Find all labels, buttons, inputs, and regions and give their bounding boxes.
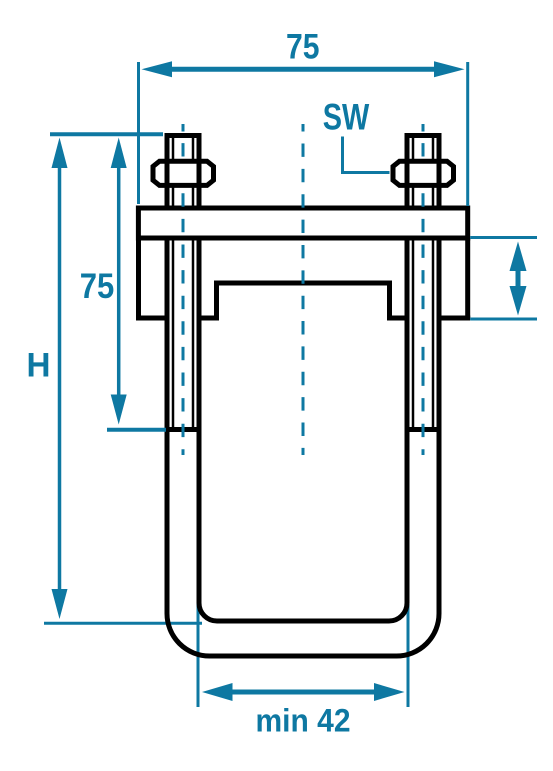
right dimension: upper extension (470, 236, 537, 239)
top dimension 75: left arrowhead (142, 61, 173, 77)
extension line: min42 left (197, 601, 200, 707)
right flange vertical (465, 238, 470, 318)
middle centerline (302, 124, 305, 455)
right shoulder (387, 316, 410, 321)
left stud thread line left (172, 137, 175, 429)
U-bolt inner contour (199, 133, 407, 621)
svg-text:H: H (27, 346, 51, 384)
right stud thread line right (432, 137, 435, 429)
right nut face line left (405, 160, 410, 187)
svg-text:min 42: min 42 (256, 702, 351, 738)
right nut face line right (437, 160, 442, 187)
dimension H: down arrowhead (52, 589, 68, 619)
label SW: leader (343, 137, 390, 173)
left dimension 75: up arrowhead (111, 138, 127, 169)
right bolt centerline lower (422, 193, 425, 455)
left stud thread line right (192, 137, 195, 429)
right dimension: down arrowhead (510, 286, 527, 316)
left step vertical (214, 281, 219, 318)
right dimension: shaft (516, 269, 521, 288)
right stud thread line left (412, 137, 415, 429)
dimension H: up arrowhead (52, 138, 68, 169)
left flange bottom (136, 316, 170, 321)
dimension H: line (58, 166, 62, 591)
right flange bottom (437, 316, 471, 321)
left shoulder (197, 316, 220, 321)
right step vertical (387, 281, 392, 318)
right bolt centerline upper (422, 124, 425, 157)
bottom dimension min 42: right arrowhead (374, 683, 405, 701)
step top edge (214, 281, 392, 286)
clamp plate (138, 208, 467, 238)
extension line under drawing: H bottom reference (44, 622, 202, 625)
right nut (393, 161, 454, 185)
left flange vertical (136, 238, 141, 318)
left dimension 75: line (117, 166, 121, 396)
left bolt centerline lower (182, 193, 185, 455)
right stud top edge (405, 133, 442, 138)
left dimension 75: bottom extension (107, 428, 166, 432)
left dimension 75: top extension (50, 132, 163, 136)
right dimension: lower extension (470, 318, 537, 321)
bottom dimension min 42: line (228, 690, 378, 695)
top dimension 75: right extension (466, 62, 469, 206)
top dimension 75: line (168, 67, 438, 72)
left stud top edge (165, 133, 202, 138)
svg-text:75: 75 (80, 267, 115, 306)
right dimension: up arrowhead (510, 242, 527, 272)
right thread end line (410, 427, 437, 432)
bottom dimension min 42: left arrowhead (202, 683, 233, 701)
left dimension 75: down arrowhead (111, 395, 127, 425)
left bolt centerline upper (182, 124, 185, 157)
U-bolt outer contour (167, 133, 439, 656)
top dimension 75: right arrowhead (434, 61, 465, 77)
top dimension 75: left extension (137, 62, 140, 204)
left thread end line (170, 427, 197, 432)
svg-text:SW: SW (323, 97, 370, 138)
left nut face line right (197, 160, 202, 187)
left nut (153, 161, 214, 185)
svg-text:75: 75 (286, 28, 320, 67)
extension line: min42 right (407, 604, 410, 707)
left nut face line left (165, 160, 170, 187)
